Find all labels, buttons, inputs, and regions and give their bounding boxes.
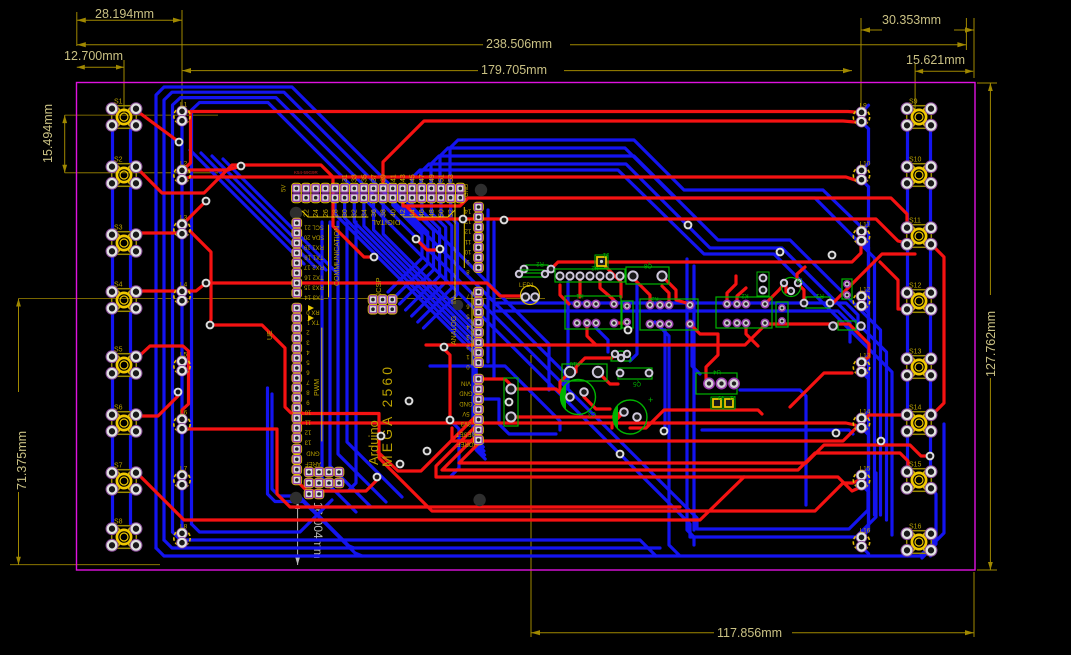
svg-text:J1: J1 <box>602 251 609 257</box>
dimension 15.494mm <box>41 104 218 173</box>
LED L14 <box>853 409 870 434</box>
svg-text:5V: 5V <box>462 410 469 416</box>
svg-text:53: 53 <box>448 174 455 182</box>
svg-text:12: 12 <box>304 429 311 435</box>
svg-text:RX1 19: RX1 19 <box>303 244 324 250</box>
mounting hole <box>475 184 487 196</box>
svg-text:S16: S16 <box>909 524 922 531</box>
svg-text:44: 44 <box>410 209 417 217</box>
svg-text:S15: S15 <box>909 462 922 469</box>
LED L8 <box>174 524 190 549</box>
svg-text:A10: A10 <box>569 360 580 366</box>
pushbutton S1 <box>106 99 142 132</box>
svg-text:VIN: VIN <box>461 380 471 386</box>
svg-text:U4: U4 <box>713 368 721 374</box>
pushbutton S7 <box>106 463 142 496</box>
dimension 28.194mm <box>77 7 182 107</box>
svg-text:K54-59G9R: K54-59G9R <box>294 170 319 175</box>
svg-text:K3: K3 <box>651 295 659 301</box>
LED L9 <box>853 103 869 127</box>
svg-text:48: 48 <box>429 209 436 217</box>
svg-text:SDA 20: SDA 20 <box>303 234 324 240</box>
pushbutton S4 <box>106 282 142 315</box>
svg-text:L6: L6 <box>180 410 188 417</box>
svg-text:11: 11 <box>464 238 471 244</box>
svg-text:R1: R1 <box>816 292 824 298</box>
pushbutton S11 <box>901 218 937 251</box>
svg-text:L4: L4 <box>180 282 188 289</box>
digital pin numbers <box>304 174 456 217</box>
svg-text:41: 41 <box>390 174 397 182</box>
pushbutton S6 <box>106 405 142 438</box>
svg-text:Arduino: Arduino <box>366 420 381 465</box>
LED L3 <box>174 215 190 240</box>
svg-text:K1: K1 <box>576 292 584 298</box>
pushbutton S15 <box>901 462 937 495</box>
pushbutton S8 <box>106 519 142 552</box>
silk ANALOG IN label <box>451 195 472 365</box>
svg-text:L14: L14 <box>860 409 871 416</box>
svg-text:L13: L13 <box>860 353 871 360</box>
svg-text:33: 33 <box>352 174 359 182</box>
svg-text:24: 24 <box>313 209 320 217</box>
svg-text:S7: S7 <box>114 463 123 470</box>
LED L5 <box>174 352 190 377</box>
LED L15 <box>853 466 870 491</box>
component C8 <box>626 262 669 284</box>
svg-text:42: 42 <box>400 209 407 217</box>
resistor R1 <box>801 292 834 308</box>
resistor R9 <box>617 368 653 379</box>
svg-text:35: 35 <box>361 174 368 182</box>
svg-text:12.700mm: 12.700mm <box>64 49 123 63</box>
svg-text:ANALOG: ANALOG <box>451 316 458 345</box>
LED L2 <box>174 161 190 186</box>
resistor R6 vertical <box>622 301 633 328</box>
svg-text:39: 39 <box>381 174 388 182</box>
svg-text:26: 26 <box>323 209 330 217</box>
svg-text:43: 43 <box>400 174 407 182</box>
svg-text:30: 30 <box>342 209 349 217</box>
LED L4 <box>174 282 190 307</box>
svg-text:L1: L1 <box>180 102 188 109</box>
svg-text:30.353mm: 30.353mm <box>882 13 941 27</box>
communication header pads <box>292 218 324 299</box>
svg-text:SCL 21: SCL 21 <box>303 224 323 230</box>
LED L10 <box>853 161 870 186</box>
svg-text:L9: L9 <box>860 103 868 110</box>
svg-text:12: 12 <box>464 228 471 234</box>
svg-text:LED1: LED1 <box>519 283 535 289</box>
LED L16 <box>853 528 870 553</box>
relay K3 <box>640 295 698 330</box>
svg-text:GND: GND <box>306 450 320 456</box>
svg-text:S9: S9 <box>909 99 918 106</box>
svg-text:S4: S4 <box>114 282 123 289</box>
sda scl aux pads 2x4 <box>304 467 344 499</box>
analog header pads <box>456 202 484 446</box>
jumper pad J1 <box>595 251 609 268</box>
resistor R8 <box>829 321 865 330</box>
svg-text:L11: L11 <box>860 222 871 229</box>
svg-text:50: 50 <box>439 209 446 217</box>
relay K2 <box>716 292 772 328</box>
svg-text:32: 32 <box>352 209 359 217</box>
svg-text:L5: L5 <box>180 352 188 359</box>
regulator U4 <box>696 368 739 394</box>
svg-text:36: 36 <box>371 209 378 217</box>
svg-text:ICSP: ICSP <box>374 277 383 295</box>
mounting hole <box>453 300 464 311</box>
dimension 30.353mm <box>861 13 974 110</box>
svg-text:15.494mm: 15.494mm <box>41 104 55 163</box>
pushbutton S3 <box>106 225 142 258</box>
svg-text:11: 11 <box>304 419 311 425</box>
svg-text:S10: S10 <box>909 157 922 164</box>
svg-text:+: + <box>648 395 653 405</box>
svg-text:3V3: 3V3 <box>460 420 471 426</box>
pwm header pads <box>292 323 321 486</box>
svg-text:179.705mm: 179.705mm <box>481 63 547 77</box>
svg-text:10: 10 <box>304 409 311 415</box>
svg-text:117.856mm: 117.856mm <box>717 626 782 640</box>
svg-text:127.762mm: 127.762mm <box>984 311 998 377</box>
pushbutton S14 <box>901 405 937 438</box>
transistor Q5 <box>611 351 641 386</box>
svg-text:RX2 17: RX2 17 <box>303 264 324 270</box>
svg-text:L15: L15 <box>860 466 871 473</box>
mounting hole <box>290 207 302 219</box>
svg-text:DIGITAL: DIGITAL <box>372 218 401 227</box>
dimension 127.762mm <box>977 83 998 570</box>
svg-text:S2: S2 <box>114 157 123 164</box>
svg-text:RX 0: RX 0 <box>306 309 320 315</box>
svg-text:L3: L3 <box>180 215 188 222</box>
svg-text:S12: S12 <box>909 283 922 290</box>
silk PWM label <box>314 328 322 441</box>
svg-text:S3: S3 <box>114 225 123 232</box>
svg-text:S11: S11 <box>909 218 921 225</box>
pushbutton S9 <box>901 99 937 132</box>
svg-text:L12: L12 <box>860 287 871 294</box>
svg-text:TX2 16: TX2 16 <box>304 274 324 280</box>
resistor R7 vertical <box>776 302 788 327</box>
dimension 15.621mm <box>906 53 973 110</box>
LED L6 <box>174 410 190 435</box>
svg-text:C3: C3 <box>588 410 596 416</box>
svg-text:L7: L7 <box>180 466 188 473</box>
vias <box>175 139 934 481</box>
svg-text:COMMUNICATION: COMMUNICATION <box>334 226 341 286</box>
svg-text:Q5: Q5 <box>632 380 641 386</box>
svg-text:L2: L2 <box>180 161 188 168</box>
svg-text:28.194mm: 28.194mm <box>95 7 154 21</box>
LED L13 <box>853 353 870 378</box>
svg-text:TX1 18: TX1 18 <box>304 254 324 260</box>
silk Arduino MEGA 2560 label <box>366 367 395 467</box>
svg-text:GND: GND <box>459 390 473 396</box>
svg-text:IOREF: IOREF <box>457 440 476 446</box>
svg-text:S8: S8 <box>114 519 123 526</box>
pushbutton S16 <box>901 524 937 557</box>
svg-text:AREF: AREF <box>305 460 321 466</box>
svg-text:46: 46 <box>419 209 426 217</box>
svg-text:45: 45 <box>410 174 417 182</box>
dimension 179.705mm <box>182 63 852 77</box>
blue traces bottom copper layer <box>113 87 945 558</box>
svg-text:51: 51 <box>439 174 446 182</box>
svg-text:GND: GND <box>459 400 473 406</box>
mounting hole <box>290 492 302 504</box>
pushbutton S5 <box>106 347 142 380</box>
dimension 71.375mm <box>10 299 545 565</box>
jumper J2 <box>723 394 736 409</box>
jumper J3 <box>711 394 724 409</box>
svg-text:L10: L10 <box>860 161 871 168</box>
svg-text:GND: GND <box>464 183 470 197</box>
capacitor C2 <box>613 395 653 434</box>
dimension 16.004mm <box>295 501 325 565</box>
svg-text:L8: L8 <box>180 524 188 531</box>
svg-text:RESET: RESET <box>456 430 476 436</box>
silk COMMUNICATION label <box>329 225 342 297</box>
svg-text:UE: UE <box>267 330 274 340</box>
svg-text:34: 34 <box>361 209 368 217</box>
svg-text:71.375mm: 71.375mm <box>15 431 29 490</box>
LED L7 <box>174 466 190 491</box>
svg-text:28: 28 <box>332 209 339 217</box>
svg-text:S14: S14 <box>909 405 922 412</box>
svg-text:40: 40 <box>390 209 397 217</box>
resistor R2 <box>521 260 555 273</box>
pushbutton S13 <box>901 349 937 382</box>
LED L1 <box>174 102 190 126</box>
red traces top copper layer <box>137 111 944 520</box>
svg-text:31: 31 <box>342 174 349 182</box>
digital header J-DIGITAL 18x2 <box>282 170 471 203</box>
relay K1 <box>565 292 621 329</box>
svg-text:R2: R2 <box>536 260 544 266</box>
svg-text:RX3 15: RX3 15 <box>303 284 324 290</box>
transistor T9 <box>781 276 804 297</box>
RX TX pads <box>292 303 320 324</box>
dimension 117.856mm <box>531 355 974 640</box>
pushbutton S12 <box>901 283 937 316</box>
svg-text:47: 47 <box>419 174 426 182</box>
svg-text:14: 14 <box>464 208 471 214</box>
silk DIGITAL label <box>302 210 455 227</box>
svg-text:TX3 14: TX3 14 <box>304 294 324 300</box>
pads T8 <box>757 272 769 296</box>
LED L11 <box>853 222 870 247</box>
svg-text:S5: S5 <box>114 347 123 354</box>
header X2 <box>555 264 625 282</box>
svg-text:13: 13 <box>304 439 311 445</box>
connector S3 vertical <box>504 378 518 426</box>
svg-text:5V: 5V <box>282 185 288 192</box>
pushbutton S2 <box>106 157 142 190</box>
mounting hole <box>473 494 485 506</box>
diode D7 vertical <box>842 279 852 299</box>
board outline <box>77 83 976 571</box>
svg-text:238.506mm: 238.506mm <box>486 37 552 51</box>
svg-text:J2: J2 <box>730 394 736 400</box>
capacitor C3 <box>560 380 596 417</box>
svg-text:15.621mm: 15.621mm <box>906 53 965 67</box>
ICSP header 2x3 <box>368 277 397 314</box>
svg-text:38: 38 <box>381 209 388 217</box>
svg-text:PWM: PWM <box>314 379 321 396</box>
LED1 <box>519 283 540 305</box>
svg-text:10: 10 <box>464 248 471 254</box>
LED L12 <box>853 287 870 312</box>
svg-text:37: 37 <box>371 174 378 182</box>
svg-text:S1: S1 <box>114 99 123 106</box>
svg-text:S6: S6 <box>114 405 123 412</box>
svg-text:K2: K2 <box>741 292 749 298</box>
diode D10 <box>562 360 607 381</box>
dimension 12.700mm <box>64 49 124 112</box>
svg-text:L16: L16 <box>860 528 871 535</box>
svg-text:49: 49 <box>429 174 436 182</box>
svg-text:T9: T9 <box>796 276 804 282</box>
pushbutton S10 <box>901 157 937 190</box>
svg-text:S13: S13 <box>909 349 922 356</box>
diode D1 near LED1 <box>516 270 548 277</box>
dimension 238.506mm <box>77 18 967 51</box>
svg-text:Q8: Q8 <box>643 262 652 268</box>
